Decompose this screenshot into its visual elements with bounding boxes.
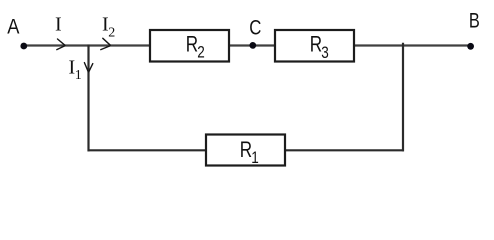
svg-text:3: 3 [321, 44, 329, 63]
svg-text:I: I [55, 14, 62, 36]
node A [7, 15, 27, 49]
svg-text:B: B [469, 9, 480, 32]
current arrow I1 [69, 57, 93, 84]
wire left vertical branch [87, 45, 89, 152]
svg-text:1: 1 [251, 149, 259, 168]
svg-text:R: R [240, 138, 252, 163]
wire right vertical branch [402, 43, 404, 152]
wire R3 to B [354, 44, 470, 46]
node B [467, 9, 480, 50]
svg-text:C: C [249, 17, 261, 40]
wire bottom left to R1 [88, 149, 207, 151]
svg-text:2: 2 [197, 43, 205, 62]
svg-text:R: R [186, 32, 198, 57]
current arrow I2 [101, 14, 116, 50]
resistor R2 [150, 30, 229, 62]
wire R1 to right vertical [285, 149, 404, 151]
svg-text:1: 1 [75, 68, 82, 83]
wire A to R2 [24, 44, 150, 46]
svg-text:A: A [7, 15, 20, 38]
current arrow I [55, 14, 65, 50]
svg-text:2: 2 [108, 26, 115, 41]
node C [249, 17, 261, 49]
wire R2 to R3 through C [229, 44, 275, 46]
svg-text:R: R [310, 32, 322, 57]
resistor R3 [275, 30, 354, 62]
resistor R1 [206, 135, 285, 168]
